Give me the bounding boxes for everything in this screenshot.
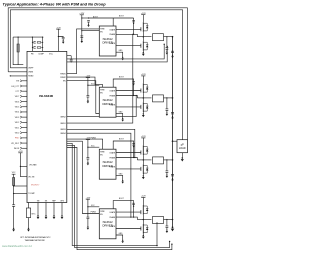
wire UGATE2 bbox=[116, 90, 141, 92]
svg-text:LGATE: LGATE bbox=[110, 103, 116, 106]
wire node to inductor L2 bbox=[137, 97, 151, 99]
node EN input pin bbox=[16, 80, 27, 83]
ground at IC bottom pin x=38 bbox=[37, 215, 40, 219]
svg-text:VSEN: VSEN bbox=[28, 72, 34, 74]
wire L1 to VCORE bus bbox=[164, 36, 173, 38]
transistor Q1L lower (N-MOSFET) bbox=[141, 41, 149, 51]
svg-text:ISL6612: ISL6612 bbox=[103, 160, 114, 164]
node VID5 input pin bbox=[15, 106, 27, 109]
junction dot boot cap driver2 bbox=[133, 84, 134, 85]
resistor R-FB (feedback) bbox=[17, 44, 19, 52]
junction dot branch1 right bbox=[42, 42, 43, 43]
+12V input supply phase 1 bbox=[141, 13, 146, 15]
ground for C-OUT2B bbox=[171, 116, 174, 120]
ground for driver3 bbox=[121, 180, 124, 184]
svg-text:BOOT: BOOT bbox=[119, 77, 124, 79]
svg-text:LGATE: LGATE bbox=[110, 165, 116, 168]
capacitor C-VCC decoupling bbox=[62, 37, 65, 39]
svg-text:ISL6612: ISL6612 bbox=[103, 37, 114, 41]
svg-text:EN_VTT: EN_VTT bbox=[12, 86, 20, 88]
junction dot boot feed bbox=[81, 17, 82, 18]
junction dot boot to phase driver3 bbox=[133, 157, 134, 158]
wire driver1 cap to gnd bbox=[81, 37, 83, 39]
wire driver2 cap to gnd bbox=[87, 97, 89, 100]
wire comp branch2 right bbox=[41, 46, 42, 48]
capacitor C-BOOT driver1 bbox=[132, 20, 135, 22]
svg-text:PWM1: PWM1 bbox=[60, 73, 65, 75]
wire VSEN+ remote to L4 output bbox=[67, 143, 157, 245]
inductor L2 bbox=[153, 95, 164, 102]
junction dot driver1 VCC tap bbox=[81, 30, 82, 31]
junction dot capA phase2 bbox=[166, 97, 167, 98]
wire VR_TM pull-up bbox=[20, 176, 27, 178]
wire bottom pin x=38 bbox=[37, 203, 39, 216]
wire capA to gnd phase1 bbox=[166, 49, 168, 51]
junction dot boot cap branch bbox=[88, 17, 89, 18]
node VID1 input pin bbox=[15, 126, 27, 129]
ground for load bbox=[181, 157, 184, 161]
wire PWM1 to driver1 bbox=[67, 29, 100, 74]
wire VCC supply drop bbox=[57, 29, 59, 51]
+12V input supply phase 4 bbox=[141, 196, 146, 198]
svg-text:UGATE: UGATE bbox=[110, 90, 117, 93]
ground for C-OUT1A bbox=[166, 51, 169, 55]
resistor R1 (comp series) bbox=[37, 42, 41, 43]
inductor L1 bbox=[153, 34, 164, 41]
wire L3 to VCORE bus bbox=[164, 159, 173, 161]
ground at IC bottom pin x=62 bbox=[61, 215, 64, 219]
junction dot ISEN4 at phase4 bbox=[130, 217, 131, 218]
svg-text:ISL6612: ISL6612 bbox=[103, 98, 114, 102]
wire cap to ground bbox=[62, 39, 64, 40]
ground for C-OUT3A bbox=[166, 174, 169, 178]
wire L4 to VCORE bus bbox=[164, 219, 173, 221]
wire ISEN1 to phase1 bbox=[67, 34, 133, 123]
wire output cap A phase3 bbox=[166, 160, 168, 171]
wire VIN to Q1H drain bbox=[142, 15, 144, 23]
wire VCC drop bbox=[13, 174, 15, 177]
wire driver3 VCC drop bbox=[87, 140, 89, 158]
junction dot capA phase3 bbox=[166, 159, 167, 160]
wire IMON pin stub bbox=[67, 55, 71, 57]
wire ISUM- to phase1 output bbox=[67, 46, 167, 62]
svg-text:VCC: VCC bbox=[49, 54, 54, 56]
svg-text:PWM2: PWM2 bbox=[60, 77, 65, 79]
wire VCORE to load bbox=[173, 140, 178, 142]
wire BOOT driver3 bbox=[113, 141, 133, 158]
junction dot driver2 VCC tap bbox=[87, 85, 88, 86]
ground for Q2L bbox=[142, 113, 145, 117]
junction dot VCORE bus phase 2 bbox=[172, 97, 174, 99]
wire bottom pin x=46 bbox=[45, 203, 47, 216]
junction dot ISUM cap top bbox=[71, 58, 72, 59]
wire L2 to VCORE bus bbox=[164, 97, 173, 99]
wire driver3 VCC pin bbox=[88, 146, 99, 148]
wire LGATE2 bbox=[116, 106, 141, 108]
junction dot VCORE bus phase 1 bbox=[172, 36, 174, 38]
svg-text:VR_FAN: VR_FAN bbox=[29, 164, 37, 167]
wire LGATE4 bbox=[116, 228, 141, 230]
wire BOOT driver2 bbox=[113, 79, 133, 96]
svg-text:Typical Application: 4-Phase V: Typical Application: 4-Phase VR with PSM… bbox=[3, 3, 107, 7]
wire compensation loop top bbox=[13, 36, 43, 38]
wire ISEN3 to phase3 bbox=[67, 129, 135, 157]
capacitor C-VCC driver2 bbox=[87, 96, 90, 98]
wire UGATE3 bbox=[116, 152, 141, 154]
wire boot feed branch bbox=[82, 17, 89, 19]
capacitor C-OUT2A bbox=[166, 109, 169, 111]
wire phase node vertical 2 bbox=[142, 93, 144, 102]
junction dot capA phase4 bbox=[166, 219, 167, 220]
ground for Q1L bbox=[142, 52, 145, 56]
wire ISEN2 to phase2 bbox=[67, 96, 136, 117]
capacitor C-OUT1A bbox=[166, 48, 169, 50]
junction dot boot cap driver4 bbox=[133, 206, 134, 207]
wire RGND remote to output bottom bbox=[67, 148, 172, 250]
ground for driver4 VCC cap bbox=[87, 226, 90, 230]
wire VDIFF into IC bbox=[10, 67, 27, 69]
wire driver4 VCC pin bbox=[88, 206, 99, 208]
junction dot capA phase1 bbox=[166, 36, 167, 37]
wire VRHOT net down bbox=[13, 186, 15, 205]
wire PHASE4 bbox=[116, 217, 137, 219]
wire capA to gnd phase2 bbox=[166, 110, 168, 112]
svg-text:BOOT: BOOT bbox=[119, 139, 124, 141]
wire driver3 GND pin bbox=[116, 175, 123, 180]
junction dot sense tap at bottom wire bbox=[156, 245, 157, 246]
wire LGATE3 bbox=[116, 168, 141, 170]
wire PHASE3 bbox=[116, 158, 137, 160]
svg-text:IMON: IMON bbox=[14, 148, 20, 150]
wire node to inductor L3 bbox=[137, 159, 151, 161]
+12V input supply phase 2 bbox=[141, 74, 146, 76]
+12V supply for driver 3 bbox=[86, 138, 91, 140]
junction dot VCORE bus phase 3 bbox=[172, 159, 174, 161]
wire cap to ground bbox=[13, 206, 15, 227]
+12V supply for driver 4 bbox=[86, 197, 91, 199]
wire capA to gnd phase3 bbox=[166, 172, 168, 174]
capacitor C-ISUM bbox=[70, 59, 73, 61]
junction dot FB top bbox=[32, 37, 33, 38]
junction dot boot cap driver1 bbox=[133, 23, 134, 24]
wire VSEN remote sense outer ring bbox=[8, 8, 187, 140]
+12V pull-up supply bbox=[18, 151, 23, 153]
svg-text:PHASE: PHASE bbox=[109, 216, 116, 219]
ground for boot feed cap bbox=[87, 24, 89, 27]
wire output cap A phase1 bbox=[166, 37, 168, 48]
capacitor C-OUT3B bbox=[171, 174, 174, 176]
wire driver4 VCC drop bbox=[87, 199, 89, 217]
svg-text:PHASE: PHASE bbox=[109, 156, 116, 159]
wire ISUM+ to phase1 output bbox=[67, 44, 164, 59]
svg-text:OPT: INTERNAL/EXTERNAL NTC: OPT: INTERNAL/EXTERNAL NTC bbox=[20, 236, 51, 239]
wire Q4L source to gnd bbox=[142, 234, 144, 235]
thermistor NTC bbox=[26, 208, 30, 218]
junction dot branch2 left bbox=[32, 47, 33, 48]
junction dot driver3 VCC tap bbox=[87, 147, 88, 148]
svg-text:LGATE: LGATE bbox=[110, 225, 116, 228]
node PSI# input pin bbox=[15, 137, 27, 140]
+12V input supply phase 3 bbox=[141, 136, 146, 138]
svg-text:PWM4: PWM4 bbox=[91, 212, 96, 214]
ground at IC bottom pin x=54 bbox=[53, 215, 56, 219]
wire PHASE1 bbox=[116, 34, 137, 36]
svg-text:VDIFF: VDIFF bbox=[28, 68, 34, 70]
wire bottom pin x=54 bbox=[53, 203, 55, 216]
svg-text:NTC: NTC bbox=[32, 214, 37, 216]
node EN_VTT input pin bbox=[12, 85, 27, 88]
junction dot comp top bbox=[18, 37, 19, 38]
svg-text:BOOT: BOOT bbox=[119, 198, 124, 200]
capacitor C-OUT3A bbox=[166, 171, 169, 173]
ground for driver1 VCC cap bbox=[81, 39, 84, 43]
junction dot ISEN3 at phase3 bbox=[134, 157, 135, 158]
capacitor C-BOOT driver4 bbox=[132, 203, 135, 205]
junction dot ISUM cap bottom bbox=[71, 61, 72, 62]
ground for driver2 bbox=[121, 118, 124, 122]
junction dot RGND on inner ring bbox=[10, 75, 11, 76]
wire driver1 GND pin bbox=[116, 52, 123, 57]
junction dot ISEN2 at phase2 bbox=[136, 95, 137, 96]
wire driver1 VCC pin bbox=[82, 30, 100, 32]
wire phase node vertical 4 bbox=[142, 215, 144, 224]
svg-text:PWM3: PWM3 bbox=[91, 137, 96, 139]
wire Q2L source to gnd bbox=[142, 112, 144, 113]
wire FB pin stub bbox=[31, 37, 33, 51]
junction dot pull-up tap bbox=[20, 166, 21, 167]
ground for VCC decoupling cap bbox=[62, 40, 65, 44]
svg-text:UGATE: UGATE bbox=[110, 152, 117, 155]
svg-text:RGND: RGND bbox=[28, 76, 34, 78]
wire PWM4 to driver4 bbox=[67, 141, 100, 213]
capacitor C-TCOMP bbox=[12, 205, 15, 207]
wire RGND into IC bbox=[10, 75, 27, 77]
transistor Q3L lower (N-MOSFET) bbox=[141, 164, 149, 174]
junction dot ISUM- tap bbox=[167, 46, 168, 47]
op-amp driver U5 ISL6612 bbox=[99, 209, 116, 239]
wire compensation loop left/bottom bbox=[13, 37, 23, 65]
capacitor C-OUT1B bbox=[171, 51, 174, 53]
ground for driver3 VCC cap bbox=[87, 162, 90, 166]
junction dot branch2 right bbox=[42, 47, 43, 48]
wire phase node vertical 3 bbox=[142, 155, 144, 164]
junction dot boot cap driver3 bbox=[133, 146, 134, 147]
ground for driver1 bbox=[121, 57, 124, 61]
svg-text:VR_HOT#: VR_HOT# bbox=[31, 185, 39, 187]
svg-text:www.DataSheet4U.com 12: www.DataSheet4U.com 12 bbox=[2, 245, 32, 248]
junction dot sense C at bus bbox=[171, 244, 172, 245]
op-amp driver U2 ISL6612 bbox=[99, 26, 116, 56]
wire resistor R-FB leads bbox=[17, 37, 19, 65]
svg-text:PWM: PWM bbox=[100, 152, 105, 154]
junction dot driver4 VCC tap bbox=[87, 206, 88, 207]
junction dot VCC decouple tap bbox=[58, 36, 59, 37]
capacitor C1 (comp) bbox=[34, 42, 36, 44]
svg-text:ISEN1: ISEN1 bbox=[60, 123, 65, 125]
wire UGATE4 bbox=[116, 211, 141, 213]
wire VIN to Q3H drain bbox=[142, 138, 144, 146]
+12V supply for driver 2 bbox=[86, 76, 91, 78]
wire driver2 GND pin bbox=[116, 113, 123, 118]
ground for TCOMP cap bbox=[12, 228, 15, 232]
wire driver3 cap to gnd bbox=[87, 159, 89, 162]
svg-text:COMP: COMP bbox=[38, 54, 44, 56]
wire remote sense tap at L4 output bbox=[156, 224, 158, 246]
ground for C-OUT1B bbox=[171, 55, 174, 59]
junction dot branch1 left bbox=[32, 42, 33, 43]
svg-text:VR_TM: VR_TM bbox=[28, 176, 35, 178]
wire cap top link bbox=[70, 56, 72, 59]
wire TM pin to NTC bbox=[28, 203, 30, 228]
wire PWM3 to driver3 bbox=[67, 139, 103, 149]
node VID2 input pin bbox=[15, 121, 27, 124]
junction dot phase node 1 bbox=[143, 36, 145, 38]
capacitor C-OUT4A bbox=[166, 226, 169, 228]
wire output cap A phase4 bbox=[166, 220, 168, 227]
wire TCOMP into IC bbox=[14, 193, 27, 195]
wire pull-up rail bbox=[19, 153, 21, 177]
ground for Q4L bbox=[142, 235, 145, 239]
svg-text:ISEN3: ISEN3 bbox=[60, 129, 65, 131]
svg-text:LGATE: LGATE bbox=[110, 42, 116, 45]
node IMON input pin bbox=[14, 147, 27, 150]
junction dot boot to phase driver2 bbox=[133, 95, 134, 96]
node VID0 input pin bbox=[15, 132, 27, 135]
wire load to ground bbox=[181, 153, 183, 158]
capacitor C2 (comp) bbox=[34, 47, 36, 49]
wire VSEN- remote to output bottom bbox=[67, 145, 170, 247]
junction dot comp right bbox=[42, 37, 43, 38]
wire output cap A phase2 bbox=[166, 98, 168, 109]
wire driver1 VCC stem bbox=[81, 15, 83, 40]
transistor Q4L lower (N-MOSFET) bbox=[141, 224, 149, 234]
resistor R-VRHOT pull-up bbox=[13, 178, 15, 186]
svg-text:PHASE: PHASE bbox=[109, 94, 116, 97]
wire PHASE2 bbox=[116, 96, 137, 98]
junction dot VCORE bus phase 4 bbox=[172, 219, 174, 221]
wire to VCC decoupling cap bbox=[58, 36, 63, 39]
junction dot sense B at bus bbox=[169, 241, 170, 242]
ground for NTC bbox=[27, 228, 30, 232]
wire VCORE bus bbox=[172, 37, 174, 227]
wire VR_HOT# into IC bbox=[14, 185, 27, 187]
transistor Q4H upper (N-MOSFET) bbox=[141, 205, 149, 215]
wire ISEN4 to phase4 bbox=[67, 133, 131, 217]
svg-text:TCOMP: TCOMP bbox=[28, 193, 35, 195]
svg-text:PHASE: PHASE bbox=[109, 33, 116, 36]
wire COMP pin stub bbox=[42, 37, 44, 51]
junction dot boot to phase driver4 bbox=[133, 216, 134, 217]
svg-text:PWM: PWM bbox=[100, 90, 105, 92]
wire boot cap to gnd bbox=[88, 22, 90, 24]
inductor L4 bbox=[153, 217, 164, 224]
node VID4 input pin bbox=[15, 111, 27, 114]
wire EN to driver2 bbox=[67, 81, 100, 114]
VCC supply tee bbox=[12, 173, 16, 175]
ground for C-OUT2A bbox=[166, 112, 169, 116]
op-amp controller IC U1 ISL6334D bbox=[27, 51, 67, 202]
junction dot phase node 4 bbox=[143, 219, 145, 221]
svg-text:ISL6612: ISL6612 bbox=[103, 220, 114, 224]
junction dot boot to phase driver1 bbox=[133, 34, 134, 35]
junction dot sense tap at L4 bbox=[156, 222, 157, 223]
wire comp branch2 bbox=[32, 46, 33, 48]
resistor R2 (comp series) bbox=[37, 47, 41, 48]
junction dot phase node 2 bbox=[143, 97, 145, 99]
svg-text:BOOT: BOOT bbox=[119, 15, 124, 17]
node VR_RDY input pin bbox=[11, 142, 27, 145]
junction dot load tap bbox=[172, 140, 174, 142]
wire driver4 cap to gnd bbox=[87, 219, 89, 227]
node VID3 input pin bbox=[15, 116, 27, 119]
wire phase node vertical 1 bbox=[142, 32, 144, 41]
capacitor C-BOOT driver2 bbox=[132, 82, 135, 84]
wire VIN to Q4H drain bbox=[142, 198, 144, 206]
wire VDIFF remote sense inner ring bbox=[10, 10, 182, 140]
svg-text:PWM: PWM bbox=[100, 211, 105, 213]
wire BOOT driver1 bbox=[89, 18, 134, 35]
junction dot ISEN1 at phase1 bbox=[132, 34, 133, 35]
ground at VCORE bus bottom bbox=[171, 226, 175, 231]
node VID7 input pin bbox=[15, 95, 27, 98]
ground for C-OUT4A bbox=[166, 229, 169, 233]
ground for driver4 bbox=[121, 240, 124, 244]
wire VIN to Q2H drain bbox=[142, 76, 144, 84]
capacitor C-BOOT driver3 bbox=[132, 144, 135, 146]
capacitor C-VCC driver4 bbox=[87, 217, 90, 219]
wire comp branch1 bbox=[32, 41, 33, 43]
ground for Q3L bbox=[142, 175, 145, 179]
ground for driver2 VCC cap bbox=[87, 100, 90, 104]
capacitor C-boot driver1 feed bbox=[87, 21, 90, 23]
svg-text:ISEN2: ISEN2 bbox=[60, 116, 65, 118]
wire driver2 VCC drop bbox=[87, 78, 89, 96]
svg-text:ISEN4: ISEN4 bbox=[60, 133, 65, 135]
wire VR_FAN pull-up bbox=[20, 165, 27, 167]
junction dot TCOMP tap bbox=[13, 193, 14, 194]
wire PWM2 to driver2 bbox=[67, 77, 103, 87]
svg-text:LOAD: LOAD bbox=[179, 147, 186, 150]
wire bottom pin x=62 bbox=[61, 203, 63, 216]
wire comp branch1 right bbox=[41, 41, 42, 43]
wire Q3L source to gnd bbox=[142, 174, 144, 175]
wire UGATE1 bbox=[116, 28, 141, 30]
capacitor C-OUT2B bbox=[171, 112, 174, 114]
svg-text:µP: µP bbox=[181, 143, 184, 146]
wire BOOT driver4 bbox=[113, 201, 133, 218]
+12V supply for driver1/boot bbox=[79, 13, 84, 15]
transistor Q3H upper (N-MOSFET) bbox=[141, 145, 149, 155]
ground for C-OUT3B bbox=[171, 178, 174, 182]
transistor Q2H upper (N-MOSFET) bbox=[141, 83, 149, 93]
transistor Q2L lower (N-MOSFET) bbox=[141, 102, 149, 112]
wire node to inductor L4 bbox=[137, 219, 151, 221]
node VTT input pin bbox=[15, 90, 27, 93]
wire driver4 GND pin bbox=[116, 235, 123, 240]
wire capA to gnd phase4 bbox=[166, 228, 168, 230]
junction dot phase node 3 bbox=[143, 159, 145, 161]
load block: microprocessor load bbox=[177, 140, 188, 153]
junction dot VRHOT net bbox=[13, 185, 14, 186]
ground at IC bottom pin x=46 bbox=[45, 215, 48, 219]
svg-text:UGATE: UGATE bbox=[110, 28, 117, 31]
capacitor C-VCC driver1 bbox=[80, 36, 83, 38]
inductor L3 bbox=[153, 157, 164, 164]
+12V supply for VCC pin bbox=[56, 27, 61, 29]
wire node to inductor L1 bbox=[137, 36, 151, 38]
op-amp driver U4 ISL6612 bbox=[99, 149, 116, 179]
svg-text:THERMAL NETWORK: THERMAL NETWORK bbox=[25, 239, 46, 242]
